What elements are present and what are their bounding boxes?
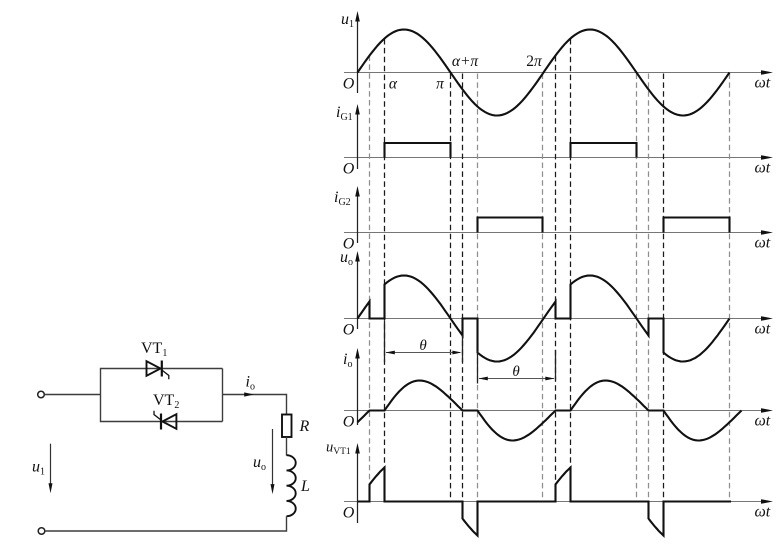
svg-text:R: R [299,418,310,435]
dashed line at alpha+pi [477,74,479,502]
svg-text:io: io [246,374,255,393]
axis io horizontal [344,410,765,412]
arrow uo (circuit) [272,429,274,485]
svg-text:θ: θ [512,364,520,380]
svg-text:iG1: iG1 [336,104,353,123]
waveform io [358,381,742,441]
svg-text:2π: 2π [526,53,543,70]
svg-text:O: O [343,76,355,93]
svg-text:VT2: VT2 [153,392,179,411]
dimension extension bar at alpha (theta 1 left) [384,321,386,363]
svg-text:io: io [343,351,352,370]
terminal upper left [38,391,45,398]
svg-text:ωt: ωt [755,160,771,177]
svg-text:u1: u1 [341,11,354,30]
axis u1 arrowhead [761,70,773,75]
waveform iG2 pulse 1 [478,218,543,233]
waveform u1 sine [358,30,730,116]
dimension extension bar at alpha+theta (theta 1 right) [462,336,464,363]
dimension arrow theta 2 [479,378,554,380]
svg-text:L: L [300,478,310,495]
axis uVT1 horizontal [344,501,765,503]
axis iG1 vertical arrowhead [355,104,360,115]
axis uo vertical [357,260,359,329]
dashed line at theta-end (prev VT2 extinction) [369,56,371,485]
wire R to L [286,437,288,456]
waveform iG2 pulse 2 [664,218,730,233]
dashed line at 4pi [729,74,731,502]
resistor R [282,415,292,438]
dashed line at alpha+2pi [570,39,572,468]
thyristor VT1 triangle [147,361,161,376]
svg-text:ωt: ωt [755,504,771,521]
waveform iG1 pulse 2 [571,143,637,158]
dimension extension bar at alpha+pi+theta (theta 2 right) [555,350,557,380]
axis u1 vertical arrowhead [355,11,360,22]
thyristor VT2 cathode bar [160,414,162,430]
dimension extension bar at alpha+pi (theta 2 left) [477,351,479,384]
axis iG1 arrowhead [761,155,773,160]
arrow io on wire [244,392,254,396]
dashed line at alpha+2pi+theta [648,74,650,502]
dashed line at alpha+theta [462,74,464,502]
dashed line at pi [450,74,452,502]
axis u1 horizontal [344,72,765,74]
axis iG1 vertical [357,113,359,169]
axis uVT1 vertical [357,452,359,523]
svg-text:uo: uo [253,454,266,473]
dimension arrow theta 1 [386,352,460,354]
axis uo vertical arrowhead [355,251,360,262]
svg-text:α: α [389,76,398,93]
terminal lower left [38,528,45,535]
axis iG2 vertical arrowhead [355,186,360,197]
dashed line at alpha [384,39,386,468]
axis iG1 horizontal [344,157,765,159]
waveform uo [358,276,730,362]
arrow u1 (circuit) [50,444,52,484]
svg-text:π: π [436,76,445,93]
wire output to load [223,395,287,415]
axis iG2 arrowhead [761,230,773,235]
svg-text:ωt: ωt [755,413,771,430]
axis uo arrowhead [761,316,773,321]
svg-text:O: O [343,161,355,178]
thyristor VT1 cathode bar [161,361,163,377]
inductor L [287,455,296,516]
thyristor VT1 gate [162,370,169,379]
svg-text:uVT1: uVT1 [326,440,351,458]
axis iG2 horizontal [344,232,765,234]
axis io arrowhead [761,408,773,413]
axis uVT1 arrowhead [761,499,773,504]
svg-text:VT1: VT1 [141,340,167,359]
svg-text:u1: u1 [32,459,45,478]
svg-text:O: O [343,322,355,339]
waveform uVT1 [358,468,732,536]
axis uo horizontal [344,318,765,320]
dashed line at 2pi [542,74,544,502]
axis uVT1 vertical arrowhead [355,443,360,454]
svg-text:α+π: α+π [452,53,480,70]
svg-text:O: O [343,414,355,431]
svg-text:θ: θ [419,338,427,354]
wire bottom [45,516,287,531]
dashed line at alpha+pi+theta [555,56,557,484]
axis io vertical arrowhead [355,348,360,359]
svg-text:ωt: ωt [755,321,771,338]
wire input (top) [45,394,101,396]
axis io vertical [357,357,359,425]
dashed line at 3pi [636,74,638,502]
svg-text:iG2: iG2 [334,189,351,208]
thyristor VT2 gate [154,411,161,420]
svg-text:ωt: ωt [755,75,771,92]
axis u1 vertical [357,20,359,93]
axis iG2 vertical [357,195,359,243]
waveform iG1 pulse 1 [385,143,451,158]
thyristor VT2 triangle [162,414,176,429]
svg-text:ωt: ωt [755,235,771,252]
svg-text:O: O [343,505,355,522]
dashed line at alpha+3pi [663,74,665,502]
wire parallel box [101,369,223,422]
